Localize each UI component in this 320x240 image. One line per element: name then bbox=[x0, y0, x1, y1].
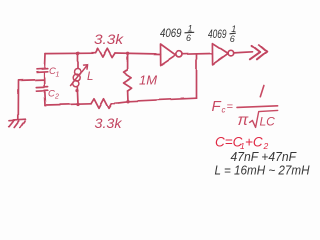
svg-text:C: C bbox=[48, 89, 55, 100]
node bottom of L coil bbox=[75, 89, 78, 92]
svg-text:4069: 4069 bbox=[160, 26, 182, 40]
svg-text:c: c bbox=[222, 106, 226, 115]
wire top rail right bbox=[115, 53, 161, 54]
node top of L bbox=[76, 52, 80, 56]
resistor R2 3.3k bottom bbox=[91, 99, 115, 109]
ground bbox=[9, 119, 25, 127]
op-amp U2 inverter 4069 bbox=[212, 43, 233, 64]
svg-text:3.3k: 3.3k bbox=[94, 31, 124, 47]
wire U1 output to U2 input bbox=[182, 53, 212, 56]
wire bottom rail right bbox=[115, 98, 197, 103]
resistor R1 3.3k top bbox=[95, 49, 115, 58]
inductor L bbox=[71, 64, 88, 87]
svg-text:L = 16mH ~ 27mH: L = 16mH ~ 27mH bbox=[215, 163, 311, 178]
wire 1M top bbox=[127, 53, 129, 70]
svg-text:3.3k: 3.3k bbox=[95, 115, 123, 131]
op-amp U1 inverter 4069 bbox=[161, 44, 182, 65]
svg-text:L: L bbox=[87, 71, 93, 83]
wire top rail left bbox=[45, 52, 95, 54]
svg-text:+C: +C bbox=[245, 134, 263, 149]
resistor R3 1M bbox=[124, 70, 132, 91]
label 4069 1/6 for U2 bbox=[208, 24, 236, 44]
wire inductor top bbox=[77, 53, 79, 68]
svg-text:6: 6 bbox=[186, 33, 191, 43]
node top of 1M bbox=[126, 52, 129, 55]
node bottom of L bbox=[76, 103, 79, 106]
formula C = C1 + C2 bbox=[215, 134, 269, 151]
svg-text:1: 1 bbox=[231, 24, 236, 34]
svg-text:6: 6 bbox=[230, 34, 235, 44]
svg-text:=: = bbox=[227, 101, 234, 113]
svg-text:2: 2 bbox=[54, 94, 59, 101]
node bottom of 1M bbox=[126, 100, 129, 103]
output arrow chevrons bbox=[250, 45, 267, 60]
wire bottom rail left bbox=[45, 104, 91, 105]
svg-text:1: 1 bbox=[56, 72, 60, 79]
capacitor C2 bbox=[36, 87, 47, 91]
svg-text:LC: LC bbox=[260, 114, 276, 128]
wire U2 output bbox=[234, 52, 253, 53]
formula Fc = 1 / (pi sqrt LC) bbox=[212, 86, 278, 129]
svg-text:1M: 1M bbox=[139, 73, 157, 88]
svg-text:4069: 4069 bbox=[208, 27, 227, 41]
wire inductor bottom bbox=[76, 87, 79, 105]
capacitor C1 bbox=[37, 54, 48, 72]
wire between C1 and C2 bbox=[43, 72, 45, 87]
wire ground stub bbox=[18, 80, 44, 119]
svg-text:F: F bbox=[212, 98, 222, 115]
wire C2 to bottom rail bbox=[43, 91, 46, 105]
label 4069 1/6 for U1 bbox=[160, 24, 194, 44]
wire 1M bottom bbox=[127, 91, 129, 101]
wire feedback vertical bbox=[196, 54, 198, 98]
svg-text:C=C: C=C bbox=[215, 134, 243, 149]
svg-text:π: π bbox=[238, 112, 249, 129]
